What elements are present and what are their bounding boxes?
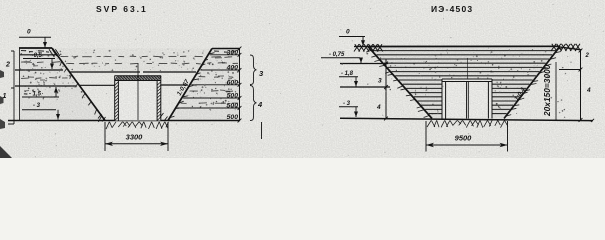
extension line right 9500 bbox=[507, 121, 509, 152]
subtle soil tint left drawing bbox=[20, 48, 106, 121]
leader line 0 right drawing bbox=[339, 36, 365, 38]
leader line for 0 level bbox=[19, 36, 51, 38]
trench bottom / -3 level line IE bbox=[340, 118, 593, 120]
ground surface left of trench bbox=[19, 47, 52, 49]
level line -1.8 bbox=[340, 86, 390, 88]
ground surface right of trench SVP bbox=[212, 48, 240, 50]
left slope of trench SVP bbox=[52, 48, 105, 121]
box left wall inner IE bbox=[445, 82, 447, 119]
arrow 0 level to ground bbox=[44, 37, 46, 47]
subtle soil tint right drawing bbox=[368, 46, 560, 118]
vertical dimension line left column IE bbox=[385, 60, 387, 119]
box right wall outer IE bbox=[491, 79, 493, 119]
backfill level line across trench left part bbox=[70, 71, 140, 73]
box top inner IE bbox=[442, 81, 492, 83]
broken strata dashes inside trench mouth SVP bbox=[61, 56, 69, 58]
hatch ticks right slope bbox=[209, 53, 215, 54]
dimension line 3300 bbox=[105, 143, 168, 145]
soil dash marks SVP bbox=[24, 61, 32, 63]
dots left of left slope IE bbox=[390, 89, 391, 90]
lower level line right of box bbox=[161, 84, 188, 86]
backfill horizontal hachure inside trench IE bbox=[373, 50, 556, 52]
stray extension line below bracket 4 bbox=[261, 122, 263, 139]
level line -0.75 bbox=[340, 63, 388, 65]
box top inner line bbox=[115, 80, 162, 82]
box right wall inner bbox=[156, 81, 158, 121]
leader -0.75 bbox=[321, 57, 360, 59]
level line -1.5 bbox=[15, 85, 76, 87]
soil layer line y55 bbox=[20, 54, 56, 56]
soil texture dots left block SVP bbox=[24, 93, 26, 95]
extension line left 9500 bbox=[425, 121, 427, 152]
tick at -0.75 right column bbox=[559, 69, 581, 71]
arrowhead left 3300 bbox=[105, 142, 113, 146]
hatch ticks right slope IE bbox=[558, 47, 565, 49]
speckle under surface SVP bbox=[21, 50, 26, 52]
separator line y85 bbox=[191, 84, 239, 86]
trench top edge line IE bbox=[368, 45, 560, 47]
box centerline bbox=[137, 63, 139, 120]
hatch ticks left slope IE bbox=[366, 50, 371, 52]
texture dots in backfill IE bbox=[521, 68, 522, 69]
arrowhead right 9500 bbox=[500, 143, 508, 147]
arrow 0 right drawing bbox=[362, 37, 364, 46]
box left wall outer bbox=[114, 76, 116, 121]
bracket 4 right of column bbox=[250, 86, 257, 121]
arrow -1.8 bbox=[355, 77, 357, 87]
corner hatch at trench top left bbox=[49, 49, 54, 56]
arrow -0.5 bbox=[51, 59, 53, 70]
box left wall outer IE bbox=[441, 79, 443, 119]
ground hatch under trench bottom SVP bbox=[106, 122, 109, 129]
strata dashes right soil block SVP bbox=[211, 56, 221, 58]
box right wall inner IE bbox=[487, 82, 489, 119]
lower level line left of box bbox=[80, 84, 115, 86]
arrow -3 to bottom bbox=[57, 110, 59, 120]
separator line y70 bbox=[200, 69, 239, 71]
leader -0.5 bbox=[23, 58, 55, 60]
light scan noise bbox=[256, 63, 257, 64]
arrow -1.5 bbox=[55, 87, 57, 97]
vertical dimension line right column IE bbox=[580, 50, 582, 120]
backfill level line across trench right part bbox=[143, 71, 196, 73]
hatch ticks left slope bbox=[54, 53, 56, 56]
arrow -0.75 bbox=[360, 58, 362, 63]
box left wall inner bbox=[117, 81, 119, 121]
strata dashes left soil block SVP bbox=[21, 61, 30, 63]
box center divider left line bbox=[466, 82, 468, 119]
culvert box SVP bbox=[115, 76, 162, 121]
arrow -3 IE bbox=[355, 107, 357, 117]
box top outer line bbox=[115, 75, 162, 77]
slope foot hatch marks SVP bbox=[98, 114, 102, 119]
box wall hatch bbox=[115, 82, 118, 85]
left slope IE bbox=[368, 47, 432, 119]
left edge of soil block bbox=[19, 48, 21, 121]
dimension line 9500 bbox=[426, 144, 508, 146]
vertical dimension line right column bbox=[239, 49, 241, 121]
separator line y98 bbox=[183, 97, 239, 99]
arrowhead left 9500 bbox=[426, 143, 434, 147]
ground hatch under trench bottom IE bbox=[427, 120, 431, 127]
extension line left 3300 bbox=[104, 122, 106, 151]
ground surface right of trench IE bbox=[560, 47, 581, 50]
separator line y108 bbox=[177, 107, 239, 109]
bracket 3 right of column bbox=[250, 55, 257, 85]
box centerline above IE bbox=[466, 58, 468, 79]
box top slab hatch bbox=[115, 76, 117, 80]
left bracket with labels 2 and 1 bbox=[8, 51, 14, 124]
separator line y55 bbox=[210, 54, 240, 56]
surface cross hatch left corner IE bbox=[354, 44, 359, 51]
culvert box IE bbox=[442, 79, 492, 119]
ground surface left of trench IE bbox=[354, 46, 368, 48]
right slope IE bbox=[504, 46, 560, 118]
trench bottom / -3 level line bbox=[8, 120, 240, 122]
extension line right 3300 bbox=[167, 122, 169, 151]
level line -0.5 bbox=[15, 69, 63, 71]
scan artifact smudges left edge bbox=[0, 70, 4, 78]
extension line right column IE bbox=[555, 62, 557, 120]
dots in backfilled trench mouth SVP bbox=[175, 60, 176, 61]
leader -3 IE bbox=[339, 106, 358, 108]
ticks on dimension column bbox=[238, 47, 242, 51]
right slope of trench SVP bbox=[168, 49, 212, 121]
leader -1.8 bbox=[339, 76, 358, 78]
surface cross hatch right corner IE bbox=[551, 44, 556, 51]
soil texture dots right block SVP bbox=[234, 79, 235, 80]
dots right of right slope IE bbox=[561, 99, 563, 101]
arrowhead right 3300 bbox=[160, 142, 168, 146]
leader -3 bbox=[22, 109, 56, 111]
box right wall outer bbox=[160, 76, 162, 121]
box center divider right line bbox=[467, 82, 469, 119]
leader -1.5 bbox=[22, 96, 59, 98]
box top outer IE bbox=[442, 78, 492, 80]
